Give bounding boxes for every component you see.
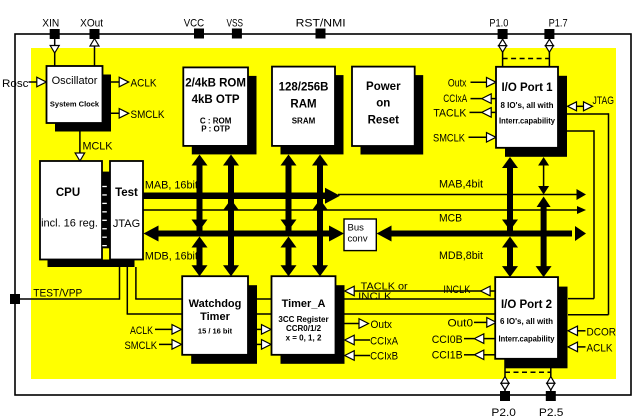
svg-text:Watchdog: Watchdog	[189, 298, 242, 310]
pin VSS square	[232, 29, 242, 39]
svg-text:System Clock: System Clock	[50, 100, 100, 109]
svg-text:XOut: XOut	[80, 18, 103, 30]
arrow Out0 into port2 (right)	[487, 318, 497, 328]
pin XIN square	[50, 29, 60, 39]
arrow into timer_A (right) 1	[262, 325, 272, 335]
arrow MCLK into CPU (down)	[75, 153, 85, 161]
wire XIN to oscillator	[54, 39, 56, 66]
wire ACLK to port2	[577, 346, 586, 348]
pin P1.0 square	[498, 29, 508, 39]
wire port1 to MAB 4bit (thin)	[543, 160, 545, 193]
bus ROM data column upper (ROM to MDB)	[197, 159, 203, 231]
arrow CCIxA from port1 (left)	[482, 94, 492, 104]
svg-text:3CC Register: 3CC Register	[278, 315, 328, 324]
bus RAM data column lower (MDB to timer_A)	[286, 241, 292, 272]
wire JTAG at port1	[576, 105, 585, 107]
wire Outx from timer_A	[336, 323, 359, 325]
svg-text:on: on	[376, 98, 390, 110]
wire Outx to port1	[471, 81, 488, 83]
svg-text:RST/NMI: RST/NMI	[296, 18, 346, 30]
block timer_A	[272, 276, 336, 355]
arrow ACLK into watchdog (right)	[172, 325, 182, 335]
bus MAB 4bit thin line	[338, 194, 578, 196]
wire CCIxB to timer_A	[355, 355, 371, 357]
svg-text:Rosc: Rosc	[2, 78, 29, 90]
wire test block to watchdog upper	[135, 267, 137, 299]
svg-text:ACLK: ACLK	[130, 325, 154, 337]
block oscillator	[47, 66, 103, 123]
RAM block shadow	[281, 75, 344, 154]
svg-text:P2.5: P2.5	[539, 407, 564, 419]
wire P1.7 to I/O port 1	[548, 39, 550, 67]
block I/O port 2	[495, 277, 558, 359]
svg-text:x = 0, 1, 2: x = 0, 1, 2	[286, 334, 322, 343]
wire TACLK from port1	[470, 111, 482, 113]
bus MAB 16bit (thick)	[143, 193, 329, 200]
svg-text:MAB, 16bit: MAB, 16bit	[145, 180, 198, 192]
wire timer_A to port2 upper	[336, 298, 497, 300]
svg-text:Reset: Reset	[368, 115, 399, 127]
svg-text:TACLK: TACLK	[433, 108, 467, 120]
wire watchdog to timer_A clock 1	[248, 328, 262, 330]
yellow chip core area	[31, 48, 616, 379]
svg-text:JTAG: JTAG	[113, 218, 140, 230]
wire Rosc to oscillator	[29, 81, 38, 83]
svg-text:Test: Test	[115, 187, 138, 199]
svg-text:VSS: VSS	[227, 18, 244, 30]
svg-text:8 IO's, all with: 8 IO's, all with	[501, 100, 554, 110]
arrow SMCLK into port1 (right)	[487, 133, 497, 143]
bus MCB line	[143, 209, 578, 211]
svg-text:MDB, 16bit: MDB, 16bit	[145, 251, 198, 263]
arrow MDB into Test (left, solid)	[144, 226, 159, 242]
svg-text:SRAM: SRAM	[292, 117, 316, 126]
svg-text:Timer_A: Timer_A	[282, 298, 326, 310]
svg-text:MCLK: MCLK	[83, 141, 114, 153]
bus ROM data column lower (MDB to watchdog)	[197, 241, 203, 272]
block RAM	[272, 67, 335, 146]
svg-text:Power: Power	[366, 81, 401, 93]
svg-text:P2.0: P2.0	[491, 407, 515, 419]
wire XOut from oscillator	[94, 39, 96, 66]
arrow INCLK out of port2 (left)	[481, 286, 491, 296]
wire Out0 to port2	[474, 321, 487, 323]
wire CCIxA to timer_A	[355, 339, 371, 341]
wire ACLK from oscillator	[102, 81, 120, 83]
wire ACLK to watchdog	[155, 328, 172, 330]
block ROM	[183, 67, 248, 145]
svg-text:CCI0B: CCI0B	[432, 334, 463, 346]
svg-text:TEST/VPP: TEST/VPP	[33, 288, 82, 300]
wire SMCLK to port1	[469, 136, 488, 138]
block bus converter	[344, 219, 376, 251]
arrow MAB 16bit (right, solid)	[325, 188, 340, 204]
wire port1 to port2 inner loop	[558, 130, 594, 132]
timer_A block shadow	[281, 285, 345, 364]
arrow MCB (right)	[577, 206, 586, 214]
arrow P1.0 bidirectional	[499, 39, 507, 46]
arrow CCI0B from port2 (left)	[474, 334, 484, 344]
svg-text:MDB,8bit: MDB,8bit	[439, 250, 483, 262]
pin P2.5 square	[546, 391, 556, 401]
bus MDB 8bit (thick)	[389, 231, 572, 237]
wire CCI0B from port2	[464, 338, 474, 340]
svg-text:incl. 16 reg.: incl. 16 reg.	[41, 218, 98, 230]
pin TEST/VPP square	[10, 294, 20, 304]
svg-text:I/O Port 1: I/O Port 1	[501, 82, 553, 94]
arrow SMCLK (right)	[119, 109, 129, 119]
pin P2.0 square	[500, 391, 510, 401]
svg-text:MCB: MCB	[439, 213, 462, 225]
wire P2.0 from I/O port 2	[504, 359, 506, 391]
svg-text:CCIxA: CCIxA	[443, 93, 468, 105]
pin VCC square	[194, 29, 204, 39]
I/O port 1 block shadow	[505, 76, 567, 157]
svg-text:CCI1B: CCI1B	[432, 350, 463, 362]
bus CPU-test interconnect bar	[102, 172, 110, 249]
watchdog timer block shadow	[191, 285, 257, 364]
svg-text:INCLK: INCLK	[443, 284, 471, 296]
wire watchdog to timer_A clock 2	[248, 343, 262, 345]
bus RAM address column (RAM to timer_A)	[317, 159, 323, 272]
block test	[110, 161, 143, 260]
pin P1.7 square	[544, 29, 554, 39]
wire port1 to port2 outer loop	[558, 113, 609, 115]
svg-text:DCOR: DCOR	[587, 327, 617, 339]
wire TACLK/INCLK timer_A to port2	[355, 290, 482, 292]
wire MCLK oscillator to CPU	[79, 123, 81, 155]
arrow MDB 8bit out of Bus conv (left, solid)	[377, 226, 392, 242]
arrow P2.0 bidirectional	[501, 377, 509, 384]
arrow MAB 4bit (right)	[577, 189, 587, 200]
block watchdog timer	[182, 276, 248, 355]
svg-text:P : OTP: P : OTP	[201, 125, 230, 134]
wire SMCLK from oscillator	[102, 112, 120, 114]
wire timer_A to port2 lower	[336, 313, 497, 315]
wire CCIxA from port1	[471, 98, 482, 100]
wire P1.0 to I/O port 1	[502, 39, 504, 67]
svg-text:conv: conv	[348, 234, 368, 245]
pin RST/NMI square	[316, 29, 326, 39]
arrow P1.7 bidirectional	[545, 39, 553, 46]
block power-on-reset	[352, 67, 415, 146]
arrow CCIxA into timer_A (left)	[345, 335, 355, 345]
wire CCI1B from port2	[464, 354, 474, 356]
svg-text:Interr.capability: Interr.capability	[499, 116, 555, 126]
wire DCOR to port2	[577, 330, 586, 332]
svg-text:Timer: Timer	[200, 311, 230, 323]
wire SMCLK to watchdog	[159, 343, 172, 345]
pin XOut square	[90, 29, 100, 39]
I/O port 2 block shadow	[505, 287, 568, 369]
bus MDB 16bit (thick)	[156, 231, 330, 237]
arrow MDB into Bus conv (right, solid)	[329, 226, 344, 242]
bus port1 data column lower (MDB to port2)	[507, 241, 513, 273]
arrow MDB 8bit (right, solid)	[575, 226, 586, 241]
svg-text:Outx: Outx	[448, 78, 467, 90]
svg-text:2/4kB ROM: 2/4kB ROM	[185, 78, 246, 90]
wire watchdog to timer_A bus upper	[248, 298, 272, 300]
dashed wire between P1.0 and P1.7 lines	[503, 58, 550, 60]
arrow Outx (right)	[359, 319, 369, 329]
svg-text:INCLK: INCLK	[358, 291, 392, 303]
svg-text:ACLK: ACLK	[587, 343, 614, 355]
svg-text:P1.7: P1.7	[549, 18, 568, 30]
arrow ACLK into port2 (left)	[568, 342, 578, 352]
svg-text:Bus: Bus	[348, 223, 365, 234]
svg-text:CCR0/1/2: CCR0/1/2	[286, 324, 322, 333]
svg-text:ACLK: ACLK	[131, 78, 158, 90]
arrow Rosc input (right)	[37, 77, 47, 87]
arrow XIN input (down)	[50, 46, 59, 54]
bus ROM address column (ROM to watchdog)	[228, 159, 234, 272]
svg-text:I/O Port 2: I/O Port 2	[501, 299, 552, 311]
svg-text:SMCLK: SMCLK	[131, 109, 166, 121]
CPU and test block bottom shadow	[48, 260, 135, 268]
arrow CCI1B from port2 (left)	[474, 350, 484, 360]
wire P2.5 from I/O port 2	[550, 359, 552, 391]
arrow JTAG left	[568, 102, 577, 111]
svg-text:15 / 16 bit: 15 / 16 bit	[198, 327, 233, 336]
dashed wire between P2.0 and P2.5 lines	[505, 371, 551, 373]
svg-text:Out0: Out0	[448, 318, 474, 330]
svg-text:Oscillator: Oscillator	[52, 75, 98, 87]
svg-text:4kB OTP: 4kB OTP	[192, 94, 240, 106]
block CPU	[40, 161, 102, 260]
svg-text:RAM: RAM	[290, 99, 316, 111]
svg-text:SMCLK: SMCLK	[125, 340, 158, 352]
svg-text:6 IO's, all with: 6 IO's, all with	[500, 316, 553, 326]
svg-text:MAB,4bit: MAB,4bit	[439, 179, 483, 191]
svg-text:CCIxB: CCIxB	[370, 351, 398, 363]
bus port1 data column upper (port1 to MDB)	[507, 162, 513, 231]
arrow TACLK/INCLK into timer_A (left)	[345, 286, 355, 296]
arrow JTAG right	[584, 102, 593, 111]
svg-text:VCC: VCC	[184, 18, 205, 30]
bus RAM data column upper (RAM to MDB)	[286, 159, 292, 231]
block I/O port 1	[496, 67, 558, 148]
power-on-reset block shadow	[361, 75, 424, 154]
arrow XOut output (up)	[90, 39, 99, 47]
svg-text:Interr.capability: Interr.capability	[499, 334, 555, 344]
ROM block shadow	[192, 76, 257, 154]
bus MAB to port2 column (thick)	[541, 203, 547, 273]
svg-text:CPU: CPU	[56, 187, 80, 199]
arrow into timer_A (right) 2	[262, 340, 272, 350]
svg-text:JTAG: JTAG	[593, 95, 615, 107]
svg-text:XIN: XIN	[42, 18, 59, 30]
arrow Outx into port1 (right)	[487, 77, 497, 87]
arrow CCIxB into timer_A (left)	[345, 351, 355, 361]
oscillator block shadow	[55, 75, 111, 132]
svg-text:Outx: Outx	[371, 319, 393, 331]
wire TEST/VPP to test block	[20, 298, 120, 300]
arrow DCOR into port2 (left)	[568, 326, 578, 336]
svg-text:128/256B: 128/256B	[279, 82, 329, 94]
svg-text:CCIxA: CCIxA	[370, 336, 399, 348]
svg-text:SMCLK: SMCLK	[433, 133, 466, 145]
svg-text:P1.0: P1.0	[489, 18, 508, 30]
arrow P2.5 bidirectional	[547, 377, 555, 384]
bus CPU-test interconnect dashes	[102, 186, 107, 188]
wire test block to watchdog lower	[126, 267, 128, 314]
arrow SMCLK into watchdog (right)	[172, 340, 182, 350]
arrow ACLK (right)	[119, 77, 129, 87]
wire watchdog to timer_A bus lower	[248, 313, 272, 315]
arrow TACLK from port1 (left)	[482, 108, 492, 118]
